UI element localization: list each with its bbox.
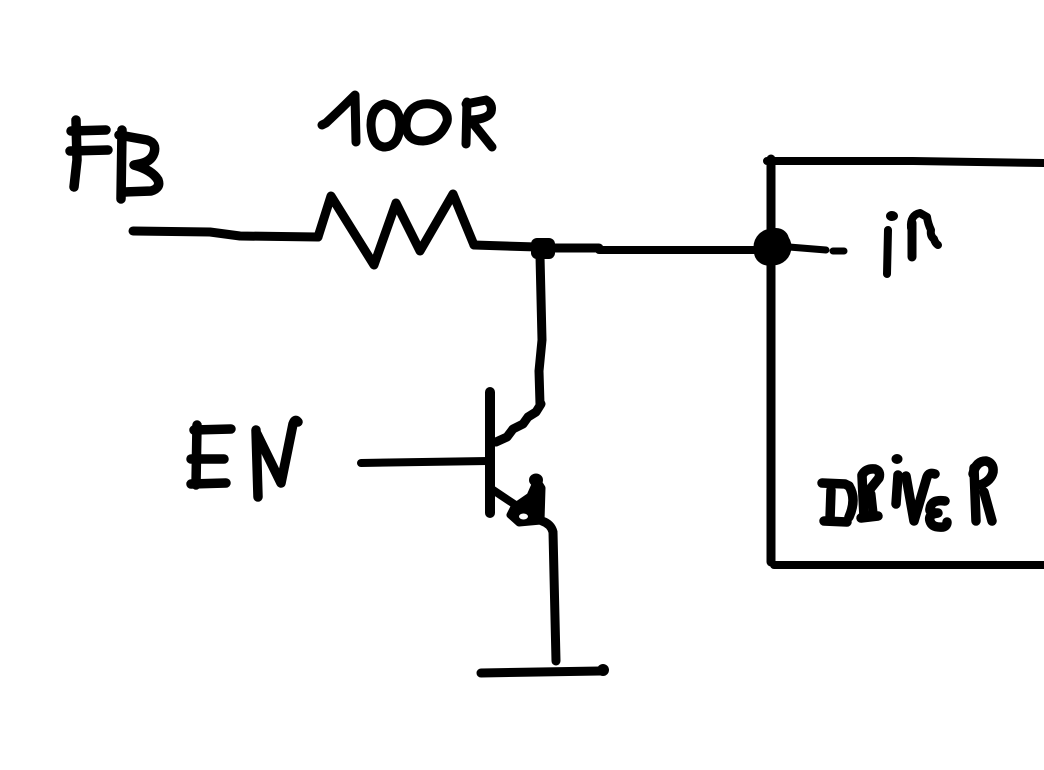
transistor Q1 base bar	[485, 392, 495, 513]
wire emitter to ground	[542, 521, 556, 661]
transistor Q1 emitter arrow	[510, 474, 543, 524]
wire resistor to node	[474, 245, 537, 247]
wire collector from node down	[539, 256, 542, 404]
node input junction (dot)	[754, 229, 792, 266]
wire stub to in pin	[789, 247, 844, 251]
net label EN	[191, 420, 298, 497]
transistor Q1 emitter diagonal	[493, 490, 517, 506]
wire node to driver input node	[553, 244, 599, 253]
label DRIVER	[822, 454, 993, 527]
transistor Q1 collector diagonal	[496, 404, 541, 442]
value label 100R	[322, 95, 492, 147]
wire base EN to transistor	[361, 461, 488, 463]
wire FB to resistor	[133, 231, 318, 237]
ground	[481, 664, 609, 676]
node junction (square)	[531, 238, 555, 259]
resistor 100R	[318, 194, 474, 265]
net label FB	[70, 120, 159, 199]
pin label in	[886, 211, 938, 274]
driver block U1 box	[767, 159, 1044, 565]
